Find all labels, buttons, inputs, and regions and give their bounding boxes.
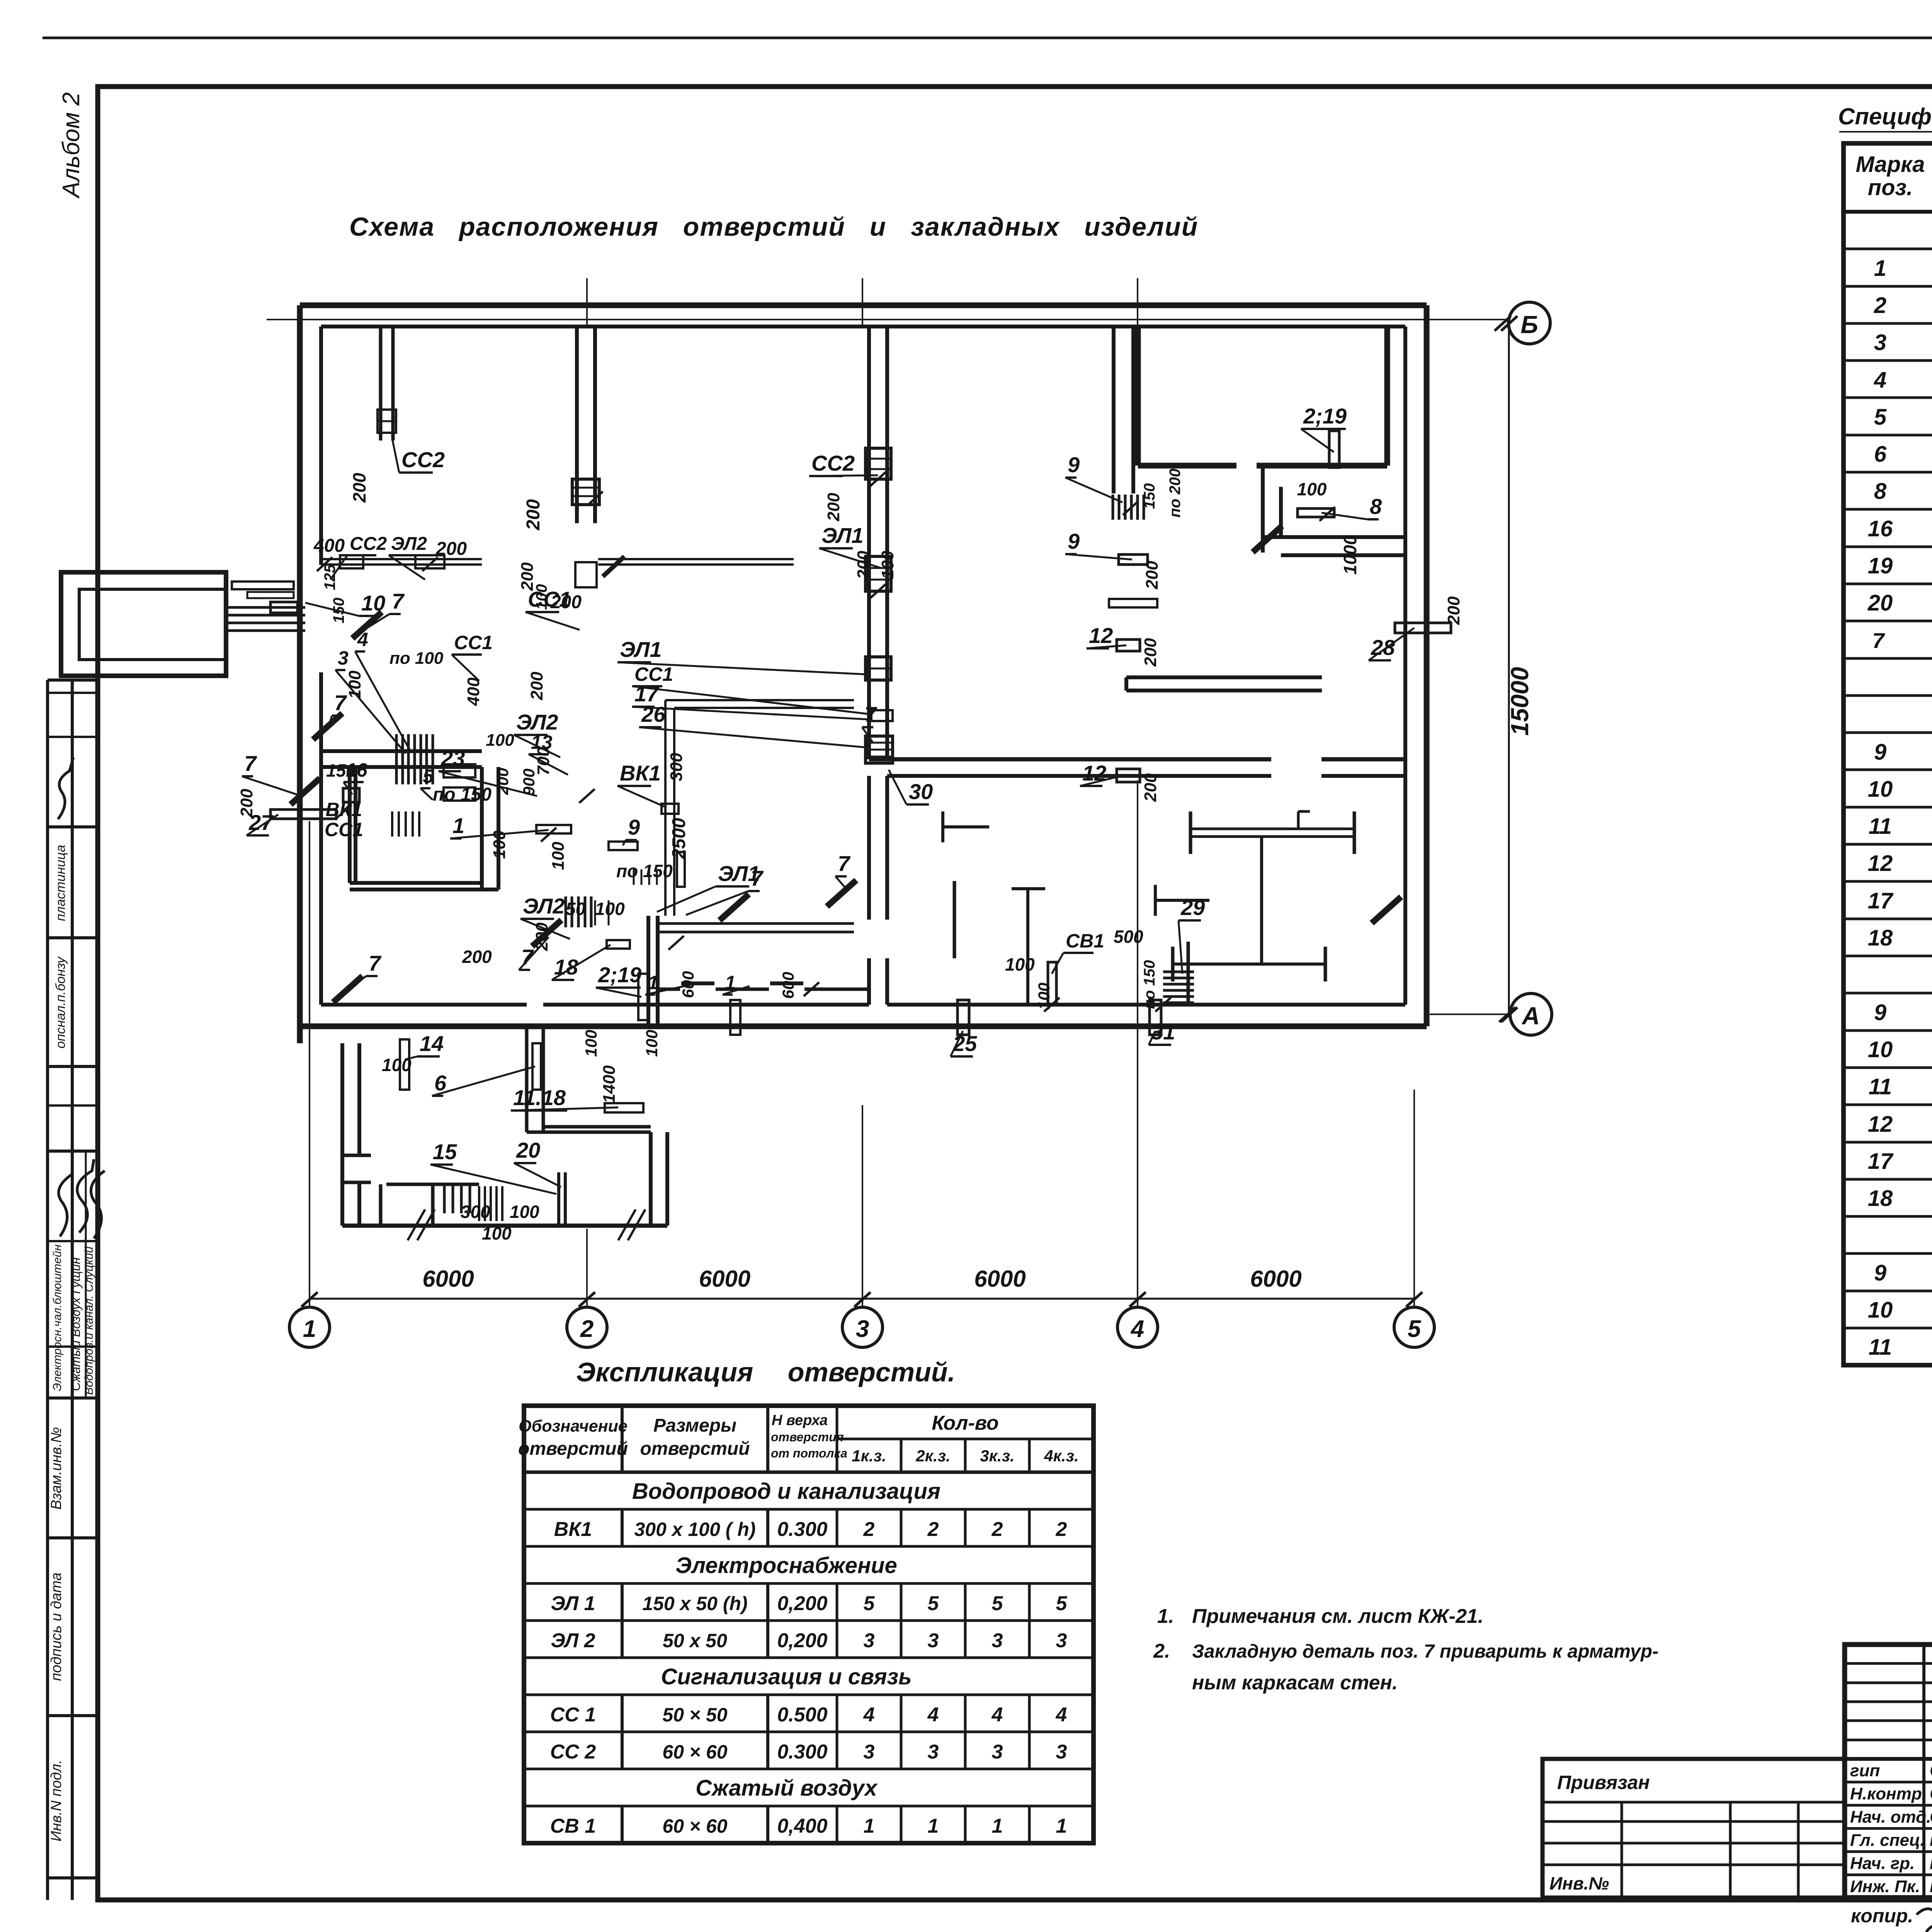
center room wall horizontal1 [658, 923, 854, 932]
element 2;19 in storage [1329, 431, 1339, 468]
spec row 17 ТРУБА 50х4,5 ГОСТ 3262-75*; ℓ=400 [1868, 888, 1932, 913]
svg-text:18: 18 [1868, 1186, 1893, 1211]
svg-text:Марка: Марка [1855, 152, 1925, 177]
svg-text:Обозначение: Обозначение [519, 1417, 628, 1435]
svg-text:Экспликация отверстий.: Экспликация отверстий. [576, 1357, 955, 1387]
svg-text:4: 4 [1056, 1704, 1067, 1726]
element 9 bar small [609, 842, 638, 850]
svg-text:7: 7 [751, 866, 764, 890]
svg-text:300 х 100 ( h): 300 х 100 ( h) [634, 1519, 755, 1540]
annex interior wall x1446 [559, 1172, 565, 1226]
svg-text:Закладную деталь поз. 7 прива: Закладную деталь поз. 7 приварить к арма… [1192, 1641, 1658, 1662]
svg-text:1: 1 [452, 813, 464, 838]
svg-text:2: 2 [1056, 1518, 1067, 1541]
svg-text:Н верха: Н верха [772, 1412, 828, 1429]
element CC1 small axis3 [871, 710, 893, 721]
svg-text:Привязан: Привязан [1557, 1772, 1650, 1793]
svg-text:5: 5 [864, 1592, 875, 1615]
element 9 bar mid [1109, 554, 1157, 607]
svg-text:100: 100 [595, 899, 625, 919]
element 6 bar [532, 1043, 541, 1090]
wall top inner [321, 325, 1405, 328]
wall right outer [1424, 305, 1430, 1026]
svg-text:300: 300 [461, 1202, 490, 1222]
svg-text:10: 10 [361, 591, 385, 615]
svg-text:200: 200 [523, 499, 544, 531]
right dimension 15000 [1501, 316, 1534, 1022]
element CC2 on partition axis3 [866, 448, 891, 479]
svg-text:600: 600 [779, 972, 797, 999]
stamp text row 1 [53, 845, 68, 921]
stair embed bundle 20 [479, 1186, 502, 1221]
svg-text:1: 1 [1056, 1815, 1067, 1837]
svg-text:4: 4 [357, 629, 368, 650]
svg-text:3: 3 [864, 1629, 875, 1652]
svg-text:10: 10 [1868, 1298, 1893, 1323]
svg-text:1400: 1400 [600, 1065, 619, 1103]
element 27 bar left wall [270, 810, 336, 819]
stamp discipline electro [51, 1245, 64, 1391]
svg-text:копир.: копир. [1851, 1905, 1913, 1927]
svg-text:опснал.п.бонзу: опснал.п.бонзу [53, 956, 68, 1048]
element 9 hatch on partition axis4 [1113, 495, 1144, 520]
duct chase lines [665, 700, 854, 916]
svg-text:0.300: 0.300 [777, 1741, 827, 1763]
svg-text:9: 9 [1068, 529, 1080, 553]
element EL1 lower on partition axis3 [866, 657, 891, 680]
partition axis3 lower [869, 776, 887, 1005]
axis circle 3 [842, 1292, 883, 1347]
embed bundle pos1 [566, 896, 609, 927]
svg-text:Электроснабжение: Электроснабжение [675, 1553, 897, 1578]
svg-text:СС 2: СС 2 [550, 1741, 596, 1763]
svg-text:Альбом 2: Альбом 2 [58, 92, 85, 199]
spec row 7 polosa [1872, 626, 1932, 661]
embed bundle at left mid wall [396, 734, 433, 784]
svg-text:200: 200 [462, 947, 492, 967]
spec row 11 ТРУБА 20х3.2 ГОСТ 3262-75*; ℓ=750 [1869, 1074, 1932, 1099]
svg-text:200: 200 [1141, 773, 1160, 802]
svg-text:отверстий: отверстий [518, 1439, 628, 1459]
svg-text:200: 200 [1444, 596, 1463, 625]
svg-text:200: 200 [527, 672, 546, 701]
svg-text:поз.: поз. [1868, 175, 1913, 200]
wall left outer [297, 305, 303, 1043]
svg-text:11.18: 11.18 [513, 1085, 566, 1110]
svg-text:5: 5 [992, 1592, 1003, 1615]
svg-text:100: 100 [878, 551, 897, 579]
svg-text:11: 11 [1869, 1074, 1892, 1099]
svg-text:20: 20 [516, 1138, 540, 1162]
wall bottom inner [321, 1003, 1405, 1007]
svg-text:8: 8 [1874, 479, 1887, 504]
annex left wall [342, 1043, 359, 1226]
explication section Электроснабжение [675, 1553, 897, 1578]
svg-text:2: 2 [1874, 293, 1886, 318]
axis line A [1430, 1014, 1509, 1015]
left stamp strip grid [48, 680, 98, 1900]
svg-text:300: 300 [667, 753, 686, 781]
stamp text row 2 [53, 956, 68, 1048]
axis circle 5 [1394, 1292, 1434, 1347]
spec row 10 КПК 15и3 [1868, 1298, 1932, 1323]
svg-text:Соколова: Соколова [1930, 1783, 1932, 1803]
svg-text:ЭЛ1: ЭЛ1 [821, 523, 863, 548]
svg-text:100: 100 [643, 1030, 661, 1057]
svg-text:100: 100 [486, 731, 514, 750]
svg-text:4: 4 [1130, 1316, 1144, 1342]
porch pipes [228, 602, 305, 631]
annex left notch [342, 1155, 371, 1182]
svg-text:7: 7 [392, 589, 405, 613]
spec row 16 ТРУБА 20х3,2 ГОСТ 3262-75*;ℓ=250 [1868, 516, 1932, 541]
svg-text:29: 29 [1180, 895, 1205, 920]
signature rows [1850, 1760, 1932, 1896]
svg-text:7: 7 [244, 751, 257, 776]
stamp podpis i data [48, 1573, 65, 1681]
svg-text:отверстия: отверстия [771, 1430, 844, 1444]
explication header [518, 1412, 1079, 1465]
spec row 10 КПК 15 и 2 [1868, 1037, 1932, 1062]
svg-text:Н.контр.: Н.контр. [1850, 1784, 1927, 1803]
svg-text:9: 9 [1874, 1260, 1886, 1286]
svg-text:ЭЛ 1: ЭЛ 1 [551, 1592, 595, 1615]
svg-text:СС2: СС2 [811, 451, 855, 475]
svg-text:1: 1 [992, 1815, 1003, 1837]
svg-text:СС1: СС1 [454, 632, 493, 653]
spec row 8 КПК 17и2 [1874, 479, 1932, 504]
svg-text:3: 3 [992, 1629, 1003, 1652]
wall left inner [319, 327, 323, 1005]
svg-text:по 150: по 150 [433, 784, 492, 805]
svg-text:9: 9 [628, 815, 640, 839]
svg-text:200: 200 [1141, 638, 1160, 667]
element 1 bars top [536, 825, 685, 887]
svg-text:7: 7 [1872, 628, 1885, 653]
svg-text:100: 100 [345, 670, 364, 699]
svg-text:СС2: СС2 [350, 534, 387, 554]
svg-text:200: 200 [1143, 561, 1162, 590]
svg-text:16: 16 [346, 759, 368, 781]
partition axis2 [577, 327, 595, 523]
svg-text:1: 1 [648, 972, 658, 993]
svg-text:Одиноков: Одиноков [1930, 1806, 1932, 1827]
annex right wall [651, 1132, 667, 1226]
element 31 bar bottom wall [1150, 1000, 1161, 1035]
element 8 bar [1298, 509, 1334, 517]
svg-text:Водопровод и канализация: Водопровод и канализация [632, 1479, 940, 1504]
door bars center [681, 981, 803, 985]
svg-text:Козлова: Козлова [1930, 1876, 1932, 1896]
privyazan text [1549, 1772, 1650, 1893]
svg-text:150: 150 [330, 598, 347, 624]
annex stair walls [381, 1184, 479, 1226]
svg-text:Кореневский: Кореневский [1930, 1830, 1932, 1850]
svg-text:2;19: 2;19 [1303, 404, 1347, 428]
svg-text:12: 12 [1868, 1112, 1893, 1137]
svg-text:6000: 6000 [699, 1266, 750, 1292]
svg-text:7: 7 [369, 951, 382, 975]
element 11.18 bar [605, 1103, 643, 1112]
svg-text:Инв.№: Инв.№ [1549, 1873, 1609, 1893]
mid horizontal wall left [321, 751, 482, 767]
svg-text:900: 900 [520, 769, 538, 796]
svg-text:3: 3 [992, 1741, 1003, 1763]
bottom dimension line [310, 1298, 1414, 1300]
annex corridor walls [527, 1026, 651, 1132]
svg-text:1: 1 [928, 1815, 939, 1837]
svg-text:1000: 1000 [1340, 535, 1360, 575]
spec row 19 КПК 17и3 [1868, 553, 1932, 578]
svg-text:200: 200 [550, 592, 582, 612]
svg-text:Васильева: Васильева [1930, 1853, 1932, 1873]
svg-text:125: 125 [321, 564, 338, 590]
storage room walls [1138, 327, 1387, 466]
svg-text:20: 20 [1867, 590, 1893, 616]
stamp inv n podl [48, 1760, 65, 1842]
mid horizontal wall right [869, 759, 1407, 776]
stamp discipline water [83, 1247, 95, 1395]
svg-text:5: 5 [1408, 1316, 1422, 1342]
spec table grid [1844, 143, 1932, 1365]
svg-text:6000: 6000 [422, 1266, 474, 1292]
vestibule walls [1263, 466, 1405, 555]
svg-text:Сжатый воздух: Сжатый воздух [696, 1776, 878, 1801]
porch inner [79, 589, 226, 660]
svg-text:16: 16 [1868, 516, 1893, 541]
frame element T2 [1155, 837, 1325, 981]
svg-text:6000: 6000 [974, 1266, 1026, 1292]
element 12 lower [1117, 769, 1140, 782]
svg-text:2: 2 [580, 1316, 594, 1342]
element 26 hatch [866, 736, 893, 763]
stamp discipline air [69, 1257, 83, 1391]
svg-text:0.300: 0.300 [777, 1518, 827, 1541]
explication section Сжатый воздух [696, 1776, 878, 1801]
svg-text:3: 3 [864, 1741, 875, 1763]
svg-text:100: 100 [549, 842, 568, 870]
svg-text:Сжатый Воздух Гущин: Сжатый Воздух Гущин [69, 1257, 83, 1391]
axis extension lines [310, 278, 1414, 1307]
spec row 9 КПК 17 и 2 [1874, 740, 1932, 765]
element 29 hatch [1163, 972, 1194, 1003]
horizontal dimension texts [325, 479, 1327, 840]
svg-text:3: 3 [1056, 1741, 1067, 1763]
svg-text:Кол-во: Кол-во [932, 1412, 998, 1434]
weld marks 7 [291, 526, 1401, 1002]
embed bundle po150 small [634, 869, 657, 885]
svg-text:100: 100 [482, 1223, 512, 1243]
explication row ВК1 [554, 1518, 1067, 1541]
svg-text:60 × 60: 60 × 60 [662, 1741, 727, 1763]
svg-text:2;19: 2;19 [598, 963, 641, 987]
svg-text:по 100: по 100 [389, 649, 444, 668]
svg-text:ВК1: ВК1 [554, 1518, 592, 1541]
axis circle 2 [567, 1292, 607, 1347]
svg-text:200: 200 [349, 473, 369, 503]
svg-text:2: 2 [927, 1518, 939, 1541]
svg-text:600: 600 [679, 971, 697, 998]
svg-text:по 150: по 150 [1141, 960, 1158, 1009]
frame element T3 [1012, 889, 1045, 1005]
svg-text:100: 100 [1297, 479, 1327, 499]
svg-text:Инж. Пк.: Инж. Пк. [1850, 1877, 1920, 1896]
svg-text:3: 3 [928, 1741, 939, 1763]
svg-text:СВ1: СВ1 [1066, 930, 1104, 952]
wall x3075 lower [1187, 942, 1190, 1005]
svg-text:Нач. гр.: Нач. гр. [1850, 1854, 1915, 1873]
svg-text:3: 3 [1874, 330, 1886, 355]
shelf wall left y1447 [321, 555, 482, 568]
svg-text:2: 2 [863, 1518, 875, 1541]
small room walls left [350, 767, 498, 889]
explication table grid [524, 1406, 1094, 1843]
svg-text:0,400: 0,400 [777, 1815, 827, 1837]
svg-text:ЭЛ2: ЭЛ2 [523, 894, 565, 918]
axis circle A [1499, 993, 1552, 1035]
svg-text:18: 18 [1868, 925, 1893, 951]
svg-text:5: 5 [1874, 405, 1887, 430]
svg-text:12: 12 [1868, 851, 1893, 876]
svg-text:3: 3 [856, 1316, 869, 1342]
element 16 bar [343, 788, 359, 802]
plan callout labels [242, 404, 1414, 1243]
spec row 3 КПК 17и 5 [1874, 330, 1932, 355]
element EL1 upper on partition axis3 [866, 556, 891, 591]
svg-text:Сигнализация и связь: Сигнализация и связь [661, 1664, 912, 1689]
svg-text:7: 7 [838, 851, 851, 876]
element 25 bar bottom wall [957, 1000, 969, 1035]
axis circle B [1495, 302, 1550, 344]
svg-text:150: 150 [1141, 483, 1158, 509]
annex bottom wall [342, 1224, 667, 1228]
svg-text:Взам.инв.№: Взам.инв.№ [48, 1427, 65, 1510]
svg-text:ЭЛ1: ЭЛ1 [620, 637, 662, 662]
element CB1 bar [1048, 962, 1056, 1005]
svg-text:12: 12 [1089, 623, 1113, 648]
annex stair hatch [444, 1184, 470, 1213]
svg-text:СС1: СС1 [325, 819, 363, 840]
spec row 18 ТРУБА 20х3,2 ГОСТ 3262-75*; ℓ=750 [1868, 1186, 1932, 1211]
partition stub x1000 [381, 327, 393, 440]
svg-text:200: 200 [824, 493, 843, 522]
spec row 9 КПК 17 [1874, 1000, 1932, 1025]
svg-text:8: 8 [1370, 494, 1382, 519]
svg-text:50 х 50: 50 х 50 [663, 1630, 727, 1651]
svg-text:15000: 15000 [1506, 667, 1534, 736]
svg-text:30: 30 [909, 779, 933, 804]
plan title [349, 212, 1198, 241]
svg-text:3: 3 [928, 1629, 939, 1652]
svg-text:5: 5 [1056, 1592, 1068, 1615]
element 18 bar [607, 940, 630, 949]
explication row ЭЛ 1 [551, 1592, 1067, 1615]
shelf wall right y1447 [598, 556, 794, 577]
svg-text:2к.з.: 2к.з. [915, 1447, 950, 1465]
spec row 17 ТРУБА 50х4,5 ГОСТ 3262-75*; ℓ=350 [1868, 1149, 1932, 1174]
element 28 bar right wall [1395, 623, 1451, 633]
partition axis4 [1114, 327, 1133, 493]
svg-text:Спецификация элементов к схеме: Спецификация элементов к схеме расположе… [1838, 104, 1932, 129]
element 2;19 bars lower [638, 974, 740, 1035]
svg-text:200: 200 [237, 789, 256, 818]
svg-text:ЭЛ2: ЭЛ2 [391, 534, 427, 554]
svg-text:Размеры: Размеры [653, 1415, 736, 1436]
spec row 18 ТРУБА 20х3,2 ГОСТ 3262-75*; ℓ=800 [1868, 925, 1932, 951]
explication row СС 2 [550, 1741, 1067, 1763]
span labels 6000 [422, 1266, 474, 1292]
svg-text:100: 100 [490, 830, 509, 859]
porch outer [61, 572, 226, 676]
element EL1 under partition axis2 [575, 562, 597, 587]
element 23 boxes [444, 764, 475, 801]
svg-text:14: 14 [420, 1031, 444, 1056]
svg-text:100: 100 [533, 584, 550, 610]
svg-text:19: 19 [1868, 553, 1893, 578]
spec row 12 ТРУБА 15х2,8 ГОСТ 3262-75*; ℓ=400 [1868, 851, 1932, 876]
svg-text:6: 6 [1874, 442, 1887, 467]
svg-text:9: 9 [1874, 1000, 1886, 1025]
element 12 upper [1117, 639, 1140, 651]
stub walls right room [943, 811, 989, 958]
spec row 12 ТРУБА 15х2,8 ГОСТ 3262-75*; ℓ=350 [1868, 1112, 1932, 1137]
svg-text:2.: 2. [1153, 1640, 1170, 1662]
svg-text:26: 26 [641, 702, 666, 726]
spec row 2 КПК 17и3 [1874, 293, 1932, 318]
svg-text:11: 11 [1869, 814, 1892, 839]
svg-text:5: 5 [928, 1592, 939, 1615]
svg-text:А: А [1521, 1002, 1540, 1030]
svg-text:подпись и дата: подпись и дата [48, 1573, 65, 1681]
svg-text:1: 1 [864, 1815, 875, 1837]
partition axis3 [869, 327, 887, 759]
svg-text:1: 1 [1874, 256, 1886, 281]
svg-text:пластиница: пластиница [53, 845, 68, 921]
svg-text:100: 100 [510, 1202, 539, 1222]
svg-text:2500: 2500 [669, 818, 689, 859]
svg-text:4: 4 [992, 1704, 1003, 1726]
svg-text:0.500: 0.500 [777, 1704, 827, 1726]
svg-text:15: 15 [433, 1139, 457, 1164]
svg-text:100: 100 [582, 1030, 600, 1057]
explication row ЭЛ 2 [551, 1629, 1067, 1652]
wall bottom outer [300, 1024, 1427, 1029]
svg-text:100: 100 [1005, 954, 1035, 975]
svg-text:23: 23 [440, 746, 465, 770]
svg-text:Примечания см. лист КЖ-21.: Примечания см. лист КЖ-21. [1192, 1605, 1483, 1628]
svg-text:по 150: по 150 [616, 861, 673, 881]
svg-text:Силаева: Силаева [1930, 1760, 1932, 1780]
element CC2 on partition axis2 [572, 479, 599, 505]
album label [58, 92, 85, 199]
explication row СВ 1 [550, 1815, 1067, 1837]
spec row 10 КПК 15 и 1 [1868, 777, 1932, 802]
svg-text:отверстий: отверстий [640, 1439, 750, 1459]
svg-text:17: 17 [1868, 888, 1894, 913]
svg-text:50 × 50: 50 × 50 [662, 1704, 727, 1726]
svg-text:ВК1: ВК1 [326, 799, 362, 820]
embed bundle vk1 cc1 [392, 811, 419, 837]
svg-text:Схема расположения отверстий: Схема расположения отверстий и закладных… [349, 212, 1198, 241]
stamp vzam inv [48, 1427, 65, 1510]
svg-text:Инв.N подл.: Инв.N подл. [48, 1760, 65, 1842]
axis circle 1 [289, 1292, 330, 1347]
svg-text:9: 9 [1068, 452, 1080, 477]
title block grid [1845, 1645, 1932, 1898]
svg-text:ным каркасам стен.: ным каркасам стен. [1192, 1672, 1398, 1694]
svg-text:150 х 50 (h): 150 х 50 (h) [642, 1593, 747, 1614]
svg-text:1.: 1. [1157, 1605, 1174, 1628]
